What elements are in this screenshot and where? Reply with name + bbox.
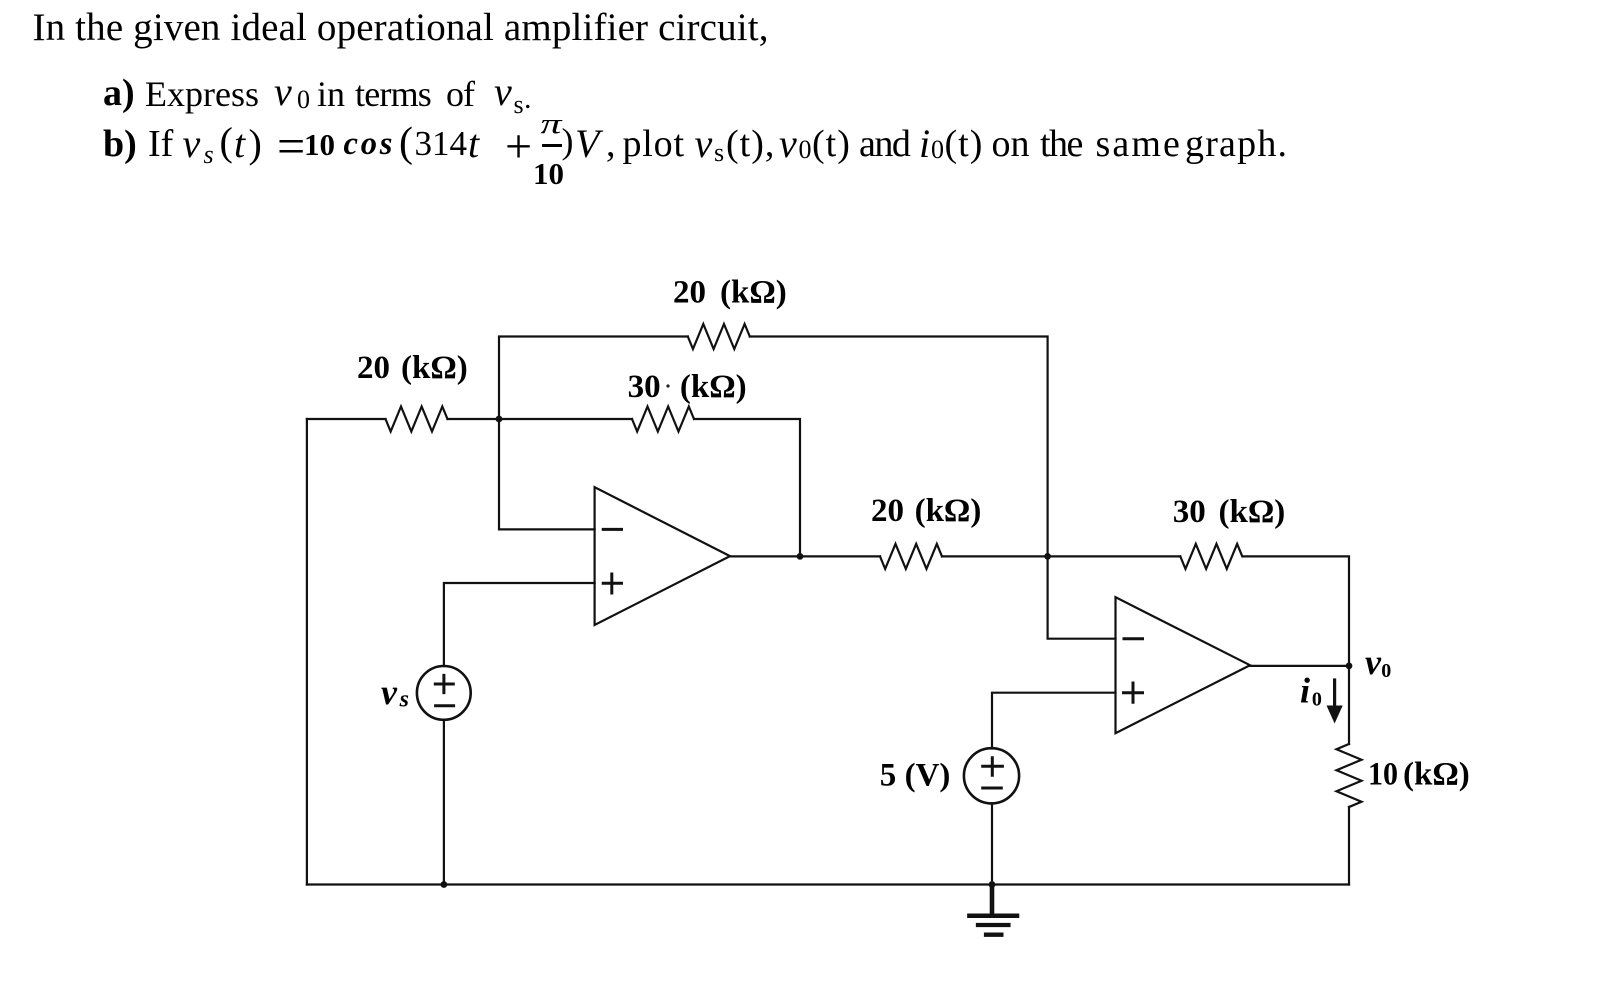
wire R4 to R5 <box>942 555 1180 557</box>
svg-text:(kΩ): (kΩ) <box>401 350 468 386</box>
wire U2 non-inverting input to 5V source <box>992 693 1116 749</box>
svg-text:0: 0 <box>1312 689 1322 711</box>
U2 minus sign <box>1124 637 1143 640</box>
svg-text:i: i <box>1300 671 1310 711</box>
node vo junction dot <box>1346 663 1353 670</box>
source V1 5V circle <box>964 748 1019 803</box>
U1 plus sign <box>603 574 621 593</box>
resistor R1 20 kOhm top feedback <box>688 324 750 349</box>
VS plus sign <box>435 675 453 692</box>
wire vs source to bottom rail <box>443 720 445 885</box>
svg-text:5: 5 <box>880 757 897 793</box>
svg-text:(kΩ): (kΩ) <box>720 275 787 311</box>
item a) marker <box>103 74 135 112</box>
wire top-left: node up and across to R1 <box>499 337 688 420</box>
wire node A to R3 <box>499 418 632 420</box>
svg-text:(V): (V) <box>905 757 951 793</box>
resistor R5 30 kOhm <box>1180 544 1242 569</box>
wire U1 output to R4 <box>730 555 880 557</box>
U1 minus sign <box>603 528 621 531</box>
problem statement line 1 <box>33 8 769 47</box>
wire left stub into R2 <box>307 418 386 420</box>
op-amp U1 <box>595 487 730 625</box>
wire 5V source to bottom rail <box>991 803 993 884</box>
svg-text:(kΩ): (kΩ) <box>915 493 982 529</box>
svg-text:30: 30 <box>628 369 661 405</box>
svg-text:20: 20 <box>673 275 706 311</box>
op-amp U2 <box>1116 597 1251 733</box>
node B junction dot <box>1044 553 1051 560</box>
wire U2 output to vo node <box>1250 665 1349 667</box>
svg-text:20: 20 <box>357 350 390 386</box>
svg-text:(kΩ): (kΩ) <box>680 369 747 405</box>
svg-text:v: v <box>381 672 398 712</box>
resistor R3 30 kOhm <box>632 407 694 432</box>
fraction pi/10 <box>542 144 562 147</box>
svg-text:s: s <box>399 687 409 713</box>
wire vo node down to R6 <box>1348 666 1350 744</box>
svg-text:π: π <box>541 108 564 140</box>
node U1 output junction dot <box>797 553 804 560</box>
svg-text:30: 30 <box>1173 494 1206 530</box>
node ground junction dot <box>989 881 996 888</box>
svg-text:10: 10 <box>1368 756 1398 792</box>
wire U1 non-inverting input to vs source <box>444 583 595 666</box>
source VS circle <box>417 666 471 720</box>
wire top-right: R1 to right vertical down to output node <box>750 337 1048 557</box>
V1 minus sign <box>983 787 1002 790</box>
resistor R4 20 kOhm middle <box>880 544 942 569</box>
U2 plus sign <box>1124 683 1143 702</box>
wire left vertical side <box>306 419 308 885</box>
node vs-bottom junction dot <box>441 881 448 888</box>
svg-text:(kΩ): (kΩ) <box>1219 494 1286 530</box>
svg-text:0: 0 <box>1381 660 1391 682</box>
svg-text:20: 20 <box>871 493 904 529</box>
svg-text:(kΩ): (kΩ) <box>1403 756 1470 792</box>
svg-text:v: v <box>1365 642 1382 682</box>
wire R2 to node A <box>448 418 500 420</box>
V1 plus sign <box>983 758 1003 776</box>
item b) marker <box>103 125 137 163</box>
wire R6 to bottom rail <box>1348 807 1350 885</box>
node A junction dot <box>496 416 503 423</box>
stray dot artifact <box>666 384 669 387</box>
resistor R2 20 kOhm input <box>386 407 448 432</box>
wire node A down to U1 inverting input <box>499 419 595 529</box>
resistor R6 10 kOhm vertical <box>1337 744 1362 807</box>
wire R5 to right vertical down to vo node <box>1243 556 1349 666</box>
i0 current arrow <box>1327 680 1343 724</box>
ground <box>969 885 1017 935</box>
wire R3 right end down to op-amp U1 output <box>694 419 800 556</box>
wire bottom rail <box>307 883 1349 885</box>
wire node B down to U2 inverting input <box>1048 556 1116 638</box>
VS minus sign <box>436 704 454 707</box>
